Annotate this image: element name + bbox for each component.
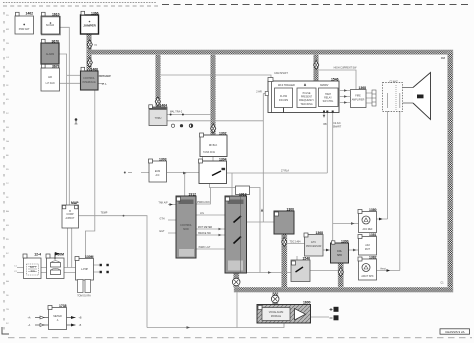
svg-text:50M: 50M — [57, 252, 64, 256]
svg-text:ALARM: ALARM — [46, 53, 54, 56]
svg-text:FLOW: FLOW — [280, 95, 288, 98]
svg-text:1368: 1368 — [358, 86, 366, 90]
svg-text:1300: 1300 — [341, 239, 349, 243]
svg-text:7C: 7C — [6, 183, 9, 185]
svg-text:SW CTRL: SW CTRL — [323, 100, 334, 103]
svg-text:1F: 1F — [6, 85, 9, 87]
svg-text:TDC 1464: TDC 1464 — [290, 240, 302, 243]
svg-text:PRESENT: PRESENT — [301, 96, 313, 99]
svg-text:MOT METER: MOT METER — [198, 226, 213, 229]
svg-text:1366: 1366 — [91, 11, 99, 15]
svg-text:RF BLK: RF BLK — [209, 144, 218, 147]
svg-text:METER: METER — [53, 315, 62, 318]
svg-text:1303: 1303 — [159, 157, 167, 161]
svg-text:1546: 1546 — [331, 77, 339, 81]
svg-text:4B: 4B — [6, 225, 9, 227]
svg-text:7B: 7B — [6, 309, 9, 311]
svg-text:2C: 2C — [6, 113, 9, 115]
svg-text:3D: 3D — [6, 169, 9, 171]
svg-text:PULSE: PULSE — [303, 92, 311, 95]
svg-text:1304: 1304 — [219, 157, 227, 161]
svg-text:3C: 3C — [6, 323, 9, 325]
svg-text:JUMPER: JUMPER — [83, 24, 96, 28]
svg-text:INCURS: INCURS — [279, 99, 289, 102]
svg-text:C2: C2 — [441, 56, 445, 60]
svg-text:GTH: GTH — [159, 218, 164, 221]
svg-text:ETC: ETC — [311, 241, 316, 244]
svg-text:L.P FAN: L.P FAN — [46, 82, 55, 85]
svg-text:M1: M1 — [6, 29, 10, 31]
svg-text:MUT: MUT — [365, 248, 371, 251]
svg-text:CONTROL: CONTROL — [180, 224, 192, 227]
svg-text:1381: 1381 — [369, 233, 377, 237]
svg-text:HOT LAMP: HOT LAMP — [99, 75, 112, 78]
svg-text:27 RLA: 27 RLA — [281, 170, 289, 173]
svg-text:RELAY: RELAY — [324, 97, 332, 100]
svg-text:MAP: MAP — [71, 201, 79, 205]
svg-text:WLS TRIGGER: WLS TRIGGER — [278, 84, 295, 87]
svg-text:30/DRV: 30/DRV — [320, 84, 329, 87]
svg-text:AMPLIFIER: AMPLIFIER — [352, 99, 365, 102]
svg-text:AMUT SPK: AMUT SPK — [361, 275, 374, 278]
svg-text:SOL: SOL — [31, 270, 36, 273]
svg-text:BATT: BATT — [30, 266, 36, 269]
svg-text:MODULE: MODULE — [271, 315, 282, 318]
svg-text:3678: 3678 — [52, 64, 60, 68]
svg-text:4D: 4D — [6, 99, 9, 101]
svg-text:CONTROL: CONTROL — [83, 77, 95, 80]
svg-text:-A: -A — [28, 324, 31, 327]
svg-text:TANK FLW: TANK FLW — [203, 151, 215, 154]
svg-text:6A: 6A — [6, 280, 9, 283]
svg-text:BRAKE SW: BRAKE SW — [198, 232, 211, 235]
svg-text:SMART: SMART — [333, 126, 342, 129]
svg-text:TRACKING: TRACKING — [300, 103, 312, 106]
svg-text:1912: 1912 — [188, 192, 196, 196]
svg-text:5B: 5B — [6, 127, 9, 129]
svg-text:C1: C1 — [440, 282, 444, 285]
svg-text:2 HR: 2 HR — [256, 90, 262, 93]
svg-text:AIR: AIR — [48, 76, 52, 79]
svg-text:SCOLR: SCOLR — [46, 24, 55, 27]
svg-text:MOD: MOD — [183, 228, 189, 231]
svg-text:HIGH: HIGH — [325, 93, 331, 96]
svg-text:130M: 130M — [85, 255, 94, 259]
svg-text:TNK A/P: TNK A/P — [158, 202, 168, 205]
svg-text:CAM SHAFT: CAM SHAFT — [274, 72, 288, 75]
svg-text:5C: 5C — [6, 253, 9, 255]
svg-text:1D: 1D — [6, 15, 9, 17]
svg-text:C2 ANT: C2 ANT — [389, 81, 398, 84]
svg-text:L-PNP: L-PNP — [81, 268, 88, 271]
svg-text:THRU: THRU — [155, 117, 162, 120]
svg-text:2F: 2F — [6, 197, 9, 199]
svg-text:A/PROT: A/PROT — [66, 217, 75, 220]
svg-text:1382: 1382 — [369, 255, 377, 259]
svg-text:CHASSIS 9 2A: CHASSIS 9 2A — [445, 330, 465, 334]
svg-text:VOICE ALRM: VOICE ALRM — [269, 311, 284, 314]
svg-text:INTERFACE: INTERFACE — [82, 81, 96, 84]
svg-text:3670: 3670 — [51, 39, 59, 43]
svg-text:1466: 1466 — [90, 67, 98, 71]
svg-text:1302: 1302 — [219, 131, 227, 135]
svg-text:FIRE: FIRE — [355, 95, 361, 98]
svg-text:ADJ REF: ADJ REF — [363, 228, 374, 231]
svg-text:A/C: A/C — [156, 174, 160, 177]
svg-text:1610: 1610 — [52, 12, 60, 16]
svg-text:1E: 1E — [6, 295, 9, 297]
svg-text:PWR ANT: PWR ANT — [19, 28, 30, 31]
svg-text:FREQUENCY: FREQUENCY — [299, 99, 314, 102]
svg-text:EGT: EGT — [160, 230, 165, 233]
svg-text:SPD: SPD — [337, 254, 342, 257]
svg-text:1368: 1368 — [315, 231, 323, 235]
svg-text:Amut: Amut — [380, 267, 386, 270]
svg-text:COMP: COMP — [66, 213, 74, 216]
svg-text:72: 72 — [94, 44, 97, 47]
svg-text:6E: 6E — [6, 155, 9, 157]
svg-text:TEMP: TEMP — [101, 212, 108, 215]
svg-text:12-4: 12-4 — [34, 252, 41, 256]
svg-text:1738: 1738 — [59, 304, 67, 308]
svg-text:1462: 1462 — [25, 11, 33, 15]
svg-text:1913: 1913 — [239, 192, 247, 196]
svg-text:2B: 2B — [6, 43, 9, 45]
svg-text:1464: 1464 — [159, 103, 167, 107]
svg-text:1A: 1A — [6, 140, 9, 143]
svg-text:TOM OU RA: TOM OU RA — [77, 295, 91, 298]
svg-text:COL: COL — [337, 250, 343, 253]
svg-text:MAL TRA-2: MAL TRA-2 — [170, 111, 183, 114]
svg-text:1546: 1546 — [302, 256, 310, 260]
svg-text:1600: 1600 — [303, 301, 311, 305]
svg-text:ADJ: ADJ — [365, 244, 370, 247]
svg-text:PROCESSOR: PROCESSOR — [306, 245, 322, 248]
svg-text:+B: +B — [79, 317, 82, 320]
svg-text:C4: C4 — [6, 57, 10, 59]
svg-text:HIGH CURRENT SW: HIGH CURRENT SW — [334, 67, 358, 70]
svg-text:RB: RB — [323, 123, 327, 126]
svg-text:LVL: LVL — [200, 212, 205, 215]
svg-text:1300: 1300 — [286, 207, 294, 211]
svg-text:-B: -B — [79, 324, 82, 327]
svg-text:ECM: ECM — [155, 170, 160, 173]
svg-text:8A: 8A — [6, 210, 9, 213]
svg-text:9D: 9D — [6, 239, 9, 241]
svg-text:17 A: 17 A — [102, 83, 107, 86]
svg-text:+A: +A — [28, 317, 31, 320]
svg-text:1380: 1380 — [369, 208, 377, 212]
svg-text:PWR LOCK: PWR LOCK — [197, 201, 210, 204]
svg-text:3A: 3A — [6, 70, 9, 73]
svg-text:PARK LGT: PARK LGT — [199, 246, 211, 249]
